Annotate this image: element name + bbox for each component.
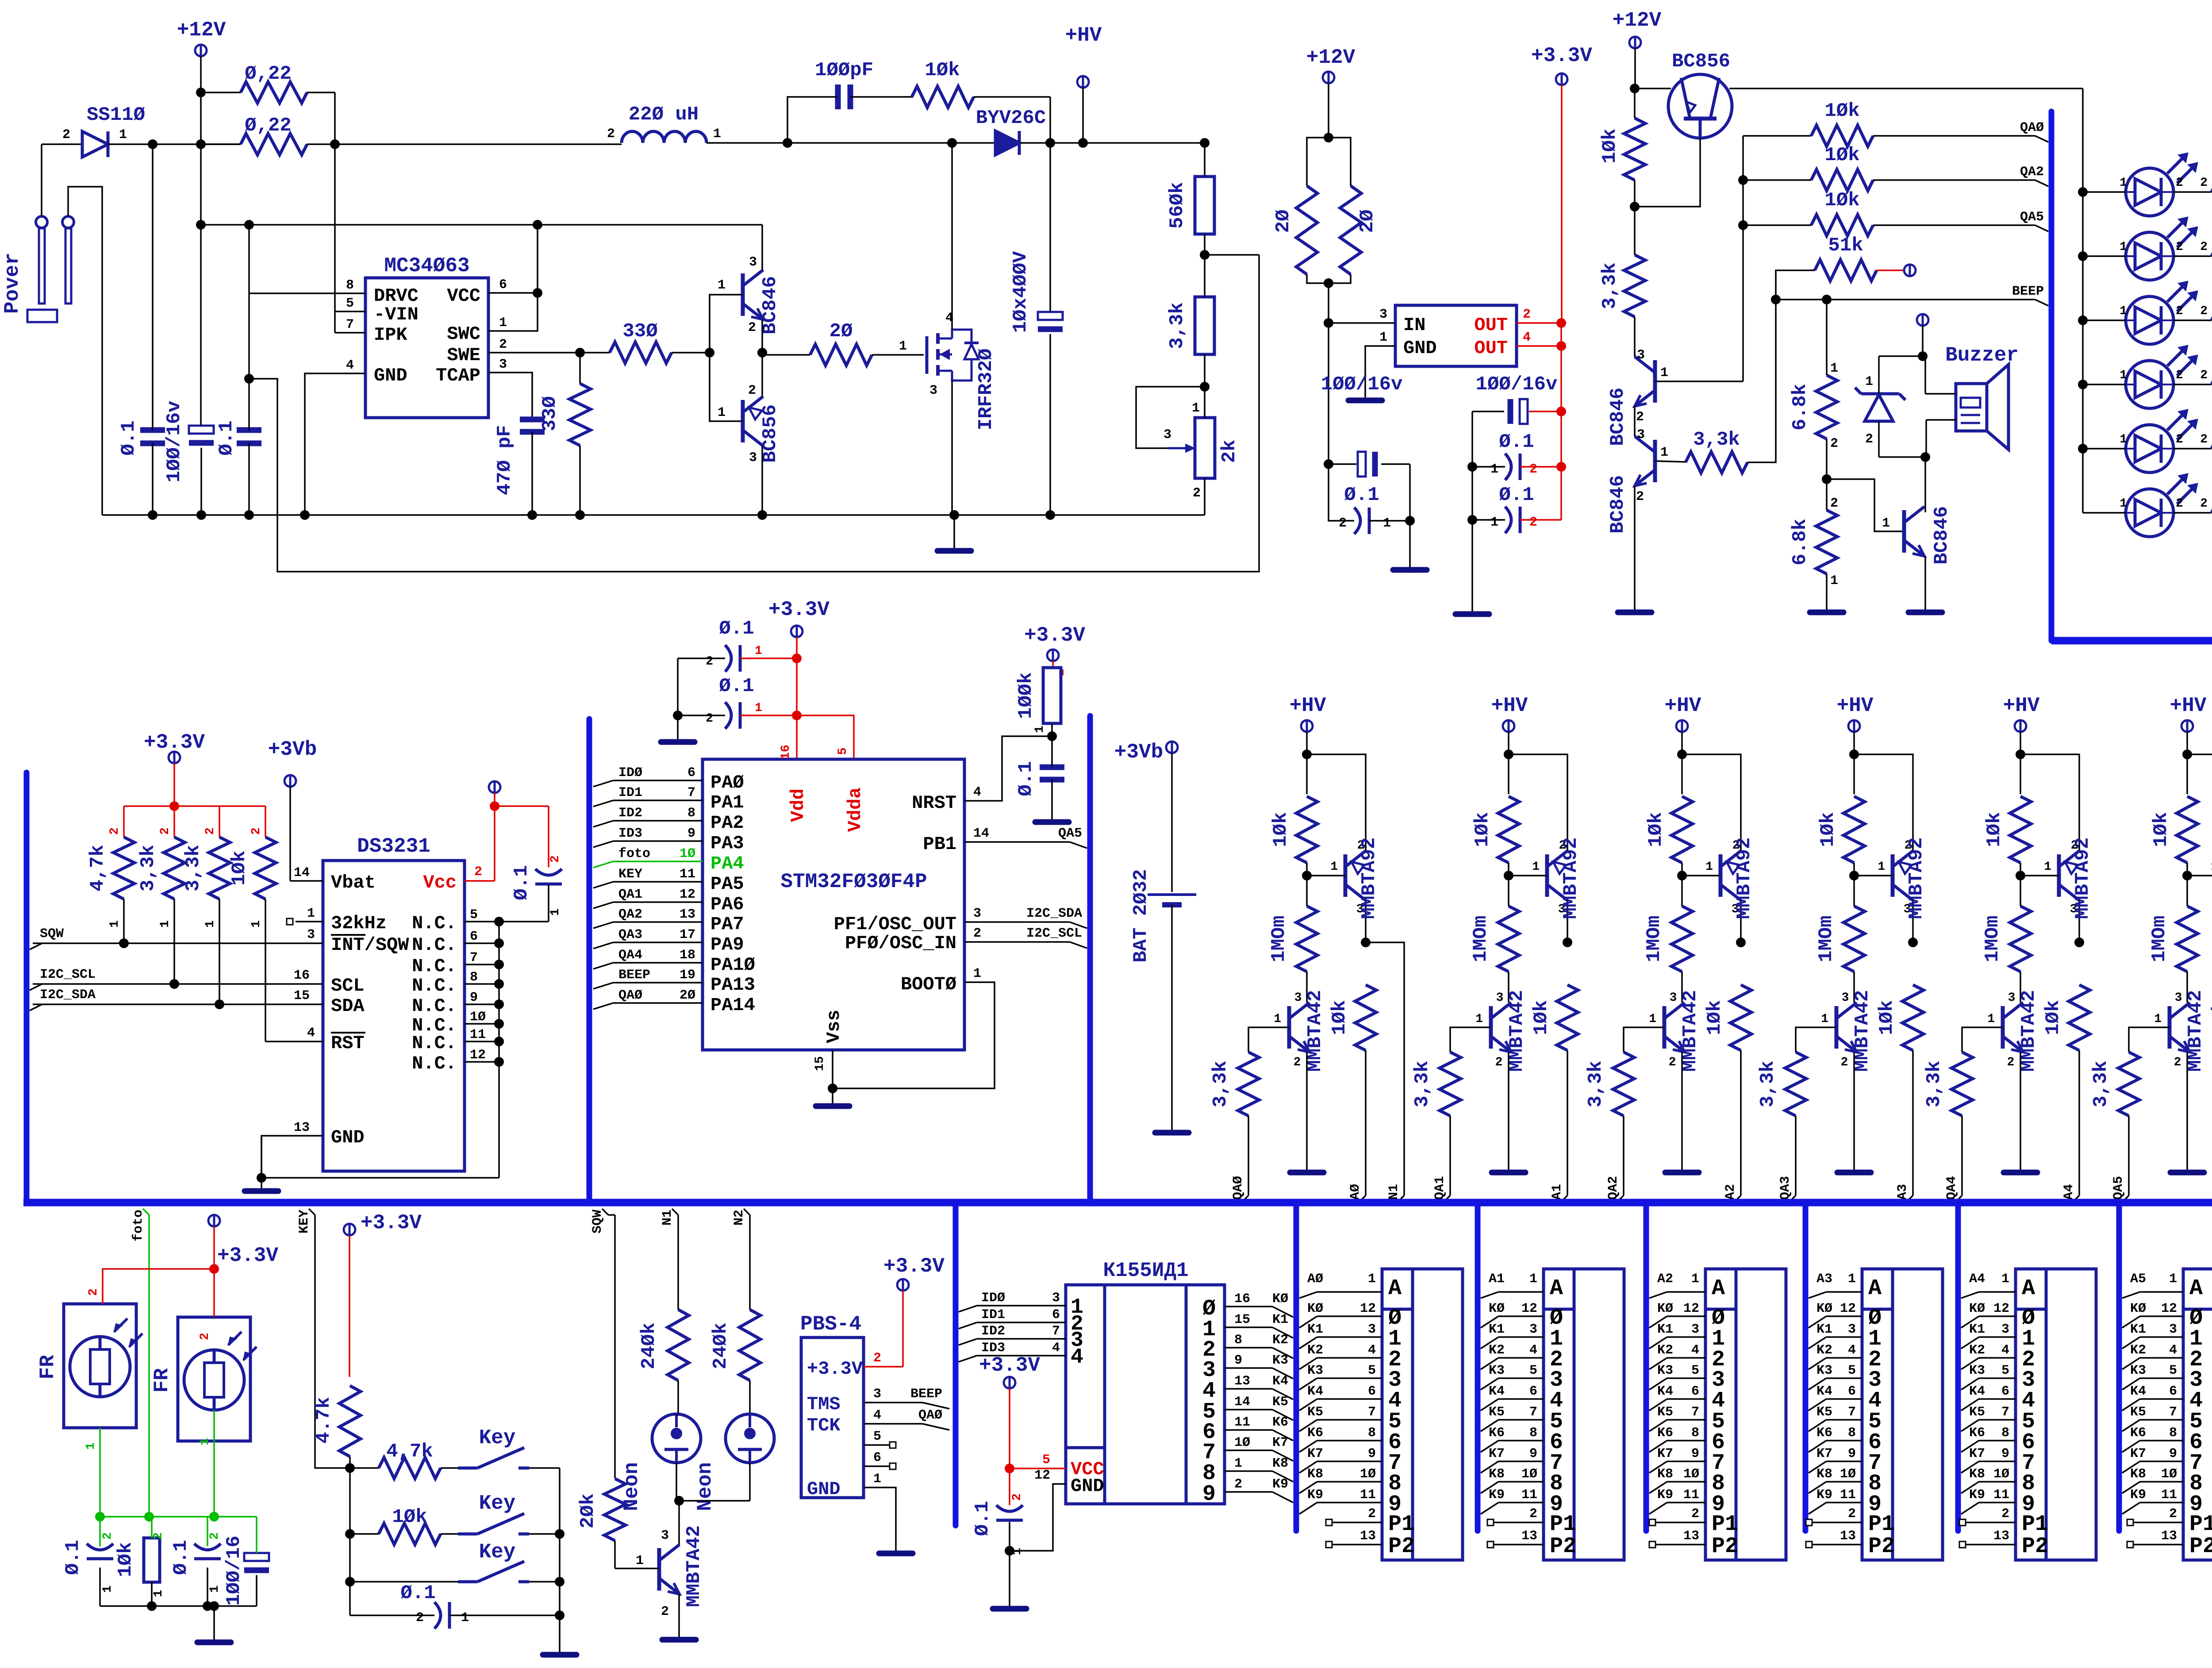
power pin (buzzer) [1917,314,1928,326]
pin 17 PA9 net QA3 [593,942,613,949]
wire vin rail [201,224,762,226]
pin 2 P1 (tube 3) [1806,1519,1812,1526]
bus left vertical [24,773,30,1199]
svg-text:Ø.1: Ø.1 [62,1540,84,1575]
ground (Q6) [1618,610,1651,615]
wire FR2 pin2 red [213,1269,215,1317]
resistor R20 6.8k (lower) [1789,474,1838,610]
svg-text:5: 5 [1848,1363,1856,1378]
pin 9 cathode K7 (tube 5) [2122,1461,2140,1473]
svg-text:1ØØpF: 1ØØpF [815,59,873,81]
pin 13 P2 (tube 1) [1487,1541,1494,1548]
resistor 10k anode (block 3) [1876,938,1924,1195]
svg-text:K6: K6 [2130,1426,2146,1441]
svg-text:9: 9 [687,826,695,841]
pin 4 NRST [964,736,1052,801]
svg-text:2: 2 [1294,1056,1301,1069]
pin 11 cathode K9 (tube 4) [1961,1503,1979,1514]
svg-text:1: 1 [108,920,122,928]
pin 7 cathode K5 (tube 5) [2122,1420,2140,1431]
svg-text:2: 2 [250,827,263,835]
svg-text:3: 3 [1164,427,1171,442]
pin 9 cathode K7 (tube 0) [1299,1461,1317,1473]
resistor 10k pull-up (block 4) [1983,796,2031,876]
svg-text:4.7k: 4.7k [313,1397,335,1444]
svg-text:5: 5 [2001,1363,2009,1378]
svg-text:1: 1 [2120,176,2127,190]
wire Q2 base tie [710,295,743,421]
pin 9 output K3 [1225,1367,1272,1369]
pin 1 anode A5 [2122,1292,2140,1298]
svg-text:AØ: AØ [1307,1272,1323,1287]
svg-text:+3.3V: +3.3V [217,1244,278,1267]
svg-text:1: 1 [1987,1012,1995,1026]
wire MMBTA42 emitter (block 4) [2020,1052,2021,1170]
svg-text:ID2: ID2 [981,1324,1005,1339]
svg-text:3,3k: 3,3k [2090,1061,2112,1107]
svg-text:Ø.1: Ø.1 [1344,484,1379,506]
svg-text:K9: K9 [1489,1487,1505,1503]
resistor 3,3k (block 3) [1757,1027,1836,1195]
svg-text:Ø.1: Ø.1 [719,618,754,640]
svg-text:I2C_SCL: I2C_SCL [40,967,96,982]
svg-text:1: 1 [636,1553,644,1568]
svg-text:2k: 2k [1218,440,1240,463]
svg-text:8: 8 [1529,1426,1537,1441]
wire net N1 [1366,942,1404,1195]
svg-text:TCK: TCK [807,1415,841,1436]
svg-text:K6: K6 [1969,1426,1985,1441]
ground (reg) [1348,398,1382,404]
switch Key2 [458,1492,560,1534]
resistor R18 51k [1776,234,1903,300]
svg-text:1: 1 [1830,361,1838,376]
svg-text:Neon: Neon [694,1462,717,1511]
resistor R6 20 (gate) [762,320,924,365]
svg-text:5: 5 [1368,1363,1376,1378]
svg-text:P2: P2 [2022,1534,2048,1559]
svg-text:K9: K9 [1816,1487,1832,1503]
svg-text:1Ø: 1Ø [2161,1467,2177,1482]
resistor R5 330 (base) [580,320,714,363]
svg-text:2: 2 [873,1351,881,1366]
nixie tube V5 socket [2016,1269,2096,1560]
svg-text:OUT: OUT [1474,315,1508,336]
ground (out caps) [1455,611,1489,617]
transistor MMBTA92 (block 2) [1677,830,1755,942]
svg-text:7: 7 [470,950,478,965]
svg-text:PA7: PA7 [710,914,744,935]
wire Q5 base rail [1655,380,1743,382]
svg-text:KØ: KØ [1657,1301,1673,1316]
svg-text:GND: GND [807,1479,841,1500]
power pin +3.3V (FR) [208,1215,278,1274]
svg-text:22Ø uH: 22Ø uH [629,104,699,126]
svg-text:2: 2 [108,827,122,835]
svg-text:6: 6 [873,1450,881,1465]
pin 8 output K2 [1225,1347,1272,1349]
svg-text:K6: K6 [1307,1426,1323,1441]
svg-text:5: 5 [1529,1363,1537,1378]
wire +12V node right [1635,88,1671,89]
pin 5 cathode K3 (tube 0) [1299,1378,1317,1390]
svg-text:6: 6 [2001,1384,2009,1399]
pin 2 P1 (tube 0) [1326,1519,1332,1526]
svg-text:1: 1 [755,701,762,715]
svg-text:1Øk: 1Øk [1471,812,1494,847]
pin 2 P1 (tube 4) [1959,1519,1966,1526]
svg-text:QA3: QA3 [1778,1176,1793,1200]
svg-text:P1: P1 [1868,1512,1895,1537]
potentiometer RP1 2k [1136,354,1240,515]
pin 1 anode A1 [1481,1292,1498,1298]
svg-text:1: 1 [2001,1272,2009,1287]
pin 13 P2 (tube 4) [1959,1541,1966,1548]
svg-text:2: 2 [1193,486,1201,501]
svg-text:11: 11 [2161,1487,2177,1503]
pin 2 P1 (tube 5) [2127,1519,2133,1526]
svg-text:1: 1 [713,127,721,142]
svg-text:1: 1 [1649,1012,1656,1026]
svg-text:13: 13 [1360,1529,1376,1544]
IC U1 MC34063 [365,254,488,418]
svg-text:BC846: BC846 [1607,475,1629,534]
power pin +HV (block 3) [1837,694,1874,754]
pin 3 TMS net BEEP [864,1402,922,1403]
pin 12 GND (K155) [1010,1484,1066,1551]
transistor Q6 BC846 (lower) [1607,427,1668,534]
ground (K155) [993,1606,1026,1612]
svg-text:1Øx4ØØV: 1Øx4ØØV [1010,251,1032,333]
ground (block 2) [1665,1170,1699,1176]
svg-text:5: 5 [2169,1363,2177,1378]
svg-text:K9: K9 [1657,1487,1673,1503]
svg-text:1: 1 [1660,445,1668,460]
pin 8 cathode K6 (tube 5) [2122,1441,2140,1452]
resistor R26 3,3k [137,837,185,984]
pin 12 cathode K0 (tube 5) [2122,1316,2140,1328]
nixie tube V1 socket [1382,1269,1463,1560]
pin 5 stub [864,1444,889,1446]
wire 6.8k tap to Q7 base [1827,479,1904,531]
svg-text:K8: K8 [1489,1467,1505,1482]
svg-text:1: 1 [1865,374,1873,389]
svg-text:2: 2 [499,337,507,352]
svg-text:4: 4 [873,1408,881,1423]
pin 9 cathode K7 (tube 1) [1481,1461,1498,1473]
svg-text:9: 9 [2001,1446,2009,1461]
svg-text:3: 3 [749,255,757,270]
pin 8 cathode K6 (tube 4) [1961,1441,1979,1452]
wire Q6 emitter to gnd [1634,486,1636,610]
svg-text:13: 13 [1234,1374,1250,1389]
transistor MMBTA92 (block 3) [1849,830,1928,942]
pin 8 cathode K6 (tube 0) [1299,1441,1317,1452]
svg-text:Ø.1: Ø.1 [118,420,140,455]
resistor 10k anode (block 0) [1329,938,1376,1195]
resistor 1MOm (block 5) [2148,876,2198,1002]
svg-text:1: 1 [1379,330,1387,345]
svg-text:6: 6 [1529,1384,1537,1399]
ground (block 3) [1837,1170,1871,1176]
svg-text:SWE: SWE [447,345,480,366]
svg-text:ID2: ID2 [618,806,642,821]
svg-text:GND: GND [1403,338,1437,359]
svg-text:N.C.: N.C. [412,1033,457,1054]
svg-text:K7: K7 [1272,1435,1288,1450]
resistor 3,3k (block 1) [1411,1027,1491,1195]
svg-text:A2: A2 [1723,1184,1738,1200]
pin 15 Vss [832,1050,833,1103]
svg-text:1Øk: 1Øk [1704,1000,1726,1035]
svg-text:2: 2 [973,926,981,941]
pin 13 GND [261,1136,323,1188]
svg-text:Key: Key [479,1541,516,1564]
svg-text:3: 3 [1842,991,1849,1005]
svg-text:1: 1 [2120,369,2127,382]
svg-text:11: 11 [1840,1487,1856,1503]
svg-text:KØ: KØ [2130,1301,2146,1316]
svg-text:+HV: +HV [1837,694,1874,717]
wire pin8 riser/feedback [249,225,1259,572]
svg-text:8: 8 [1691,1426,1699,1441]
svg-text:KEY: KEY [297,1210,312,1234]
svg-text:A: A [1712,1276,1725,1301]
capacitor C16 0.1 (FR1) [62,1517,115,1606]
wire red pullup rail [124,805,265,807]
resistor 10k anode (block 1) [1530,938,1578,1195]
svg-text:13: 13 [2161,1529,2177,1544]
wire +12V rail down [200,92,202,424]
resistor 1MOm (block 3) [1815,876,1865,1002]
resistor 10k anode (block 2) [1704,938,1751,1195]
svg-text:ID3: ID3 [981,1341,1005,1356]
pin 18 PA10 net QA4 [593,963,613,969]
svg-text:2: 2 [706,712,713,726]
svg-text:K3: K3 [1816,1363,1832,1378]
svg-text:1: 1 [198,1438,212,1445]
svg-text:K3: K3 [1657,1363,1673,1378]
svg-text:1: 1 [1532,860,1540,874]
svg-text:24Øk: 24Øk [638,1322,660,1369]
svg-text:A: A [1388,1276,1402,1301]
svg-text:1: 1 [1274,1012,1281,1026]
svg-text:2: 2 [1523,307,1531,322]
svg-text:K5: K5 [1489,1405,1505,1420]
svg-text:Ø.1: Ø.1 [170,1540,192,1575]
ground (PBS) [879,1551,913,1557]
bus nixie 3 vertical [1803,1206,1809,1531]
svg-text:Ø.1: Ø.1 [1015,761,1037,796]
resistor 1MOm (block 0) [1268,876,1317,1002]
svg-text:1Ø: 1Ø [470,1010,486,1025]
transistor Q3 IRFR320 MOSFET [927,311,997,430]
pin 1 anode A3 [1809,1292,1826,1298]
svg-text:A1: A1 [1489,1272,1505,1287]
svg-text:K2: K2 [1969,1343,1985,1358]
bus STM32 right vertical [1087,716,1093,1199]
pin 10 cathode K8 (tube 2) [1649,1482,1667,1493]
svg-text:7: 7 [1691,1405,1699,1420]
capacitor C2 100/16v [163,401,214,515]
svg-text:1: 1 [718,278,726,293]
svg-text:BEEP: BEEP [618,968,650,983]
resistor R26 680 [2212,481,2212,523]
svg-text:1MOm: 1MOm [1268,915,1290,962]
svg-text:KØ: KØ [1307,1301,1323,1316]
pin 2 P1 (tube 2) [1649,1519,1655,1526]
svg-text:K5: K5 [2130,1405,2146,1420]
svg-text:GND: GND [374,365,407,386]
svg-text:GND: GND [1071,1476,1104,1497]
svg-text:Vss: Vss [823,1010,845,1043]
resistor R32 4,7k [350,1441,468,1479]
svg-text:3: 3 [1368,1322,1376,1337]
svg-text:QA1: QA1 [618,887,642,902]
svg-text:16: 16 [294,968,310,983]
svg-text:1Øk: 1Øk [925,59,960,81]
svg-text:+3.3V: +3.3V [883,1255,945,1278]
bus STM32 left vertical [587,719,592,1199]
svg-text:1MOm: 1MOm [1982,915,2004,962]
svg-text:MMBTA92: MMBTA92 [1905,838,1928,919]
svg-text:K3: K3 [1307,1363,1323,1378]
svg-text:P2: P2 [1388,1534,1415,1559]
wire Q1 collector [761,225,763,270]
resistor R22 680 [2212,224,2212,266]
svg-text:PA5: PA5 [710,873,744,895]
photoresistor FR2 [150,1317,257,1441]
svg-text:FR: FR [150,1368,173,1393]
svg-text:A2: A2 [1657,1272,1673,1287]
svg-text:47Ø pF: 47Ø pF [494,425,516,495]
neon lamp NE2 [694,1414,774,1511]
resistor R11 20 [1324,133,1379,288]
power pin +3Vb [268,738,317,881]
svg-text:K3: K3 [1272,1353,1288,1368]
pin 12 PA6 net QA1 [593,902,613,908]
wire +HV node (block 4) [2020,754,2021,794]
pin 7 cathode K5 (tube 1) [1481,1420,1498,1431]
wire buzzer bottom node [1879,456,1925,458]
svg-text:1: 1 [1848,1272,1856,1287]
svg-text:PA1: PA1 [710,792,744,813]
pin 3 cathode K1 (tube 1) [1481,1337,1498,1349]
svg-text:I2C_SDA: I2C_SDA [40,988,96,1003]
svg-text:P2: P2 [1712,1534,1738,1559]
svg-text:+HV: +HV [1065,24,1102,47]
resistor 3,3k (block 4) [1923,1027,2003,1195]
pin 4 RST [265,1041,323,1042]
svg-text:K2: K2 [1272,1333,1288,1348]
svg-text:3: 3 [1379,307,1387,322]
svg-text:1ØØ/16: 1ØØ/16 [223,1536,245,1606]
svg-text:K4: K4 [1969,1384,1985,1399]
svg-text:2: 2 [1495,1056,1503,1069]
nixie tube V6 socket [2183,1269,2212,1560]
pin 14 output K5 [1225,1409,1272,1410]
svg-text:2: 2 [2200,369,2208,382]
svg-text:2: 2 [2200,176,2208,190]
svg-text:K6: K6 [1272,1415,1288,1430]
svg-text:K8: K8 [1969,1467,1985,1482]
svg-text:SDA: SDA [331,995,365,1017]
svg-text:K1: K1 [1969,1322,1985,1337]
svg-text:2: 2 [1010,1493,1024,1501]
svg-text:BC856: BC856 [1672,50,1730,73]
pin 3 INT/SQW + SQW net [33,942,323,944]
pin 7 IPK [335,332,365,334]
svg-text:KEY: KEY [618,867,642,882]
wire +3.3V red rail [1560,323,1562,520]
svg-text:P1: P1 [1712,1512,1738,1537]
svg-text:PFØ/OSC_IN: PFØ/OSC_IN [845,933,956,954]
svg-text:6: 6 [1691,1384,1699,1399]
pin 4 OUT [1517,345,1561,347]
pin 3 PF1 net I2C_SDA [964,921,1070,923]
svg-text:K8: K8 [1272,1456,1288,1471]
svg-text:8: 8 [687,806,695,821]
svg-text:1: 1 [119,127,127,142]
ground (neon driver) [662,1637,696,1643]
svg-text:Ø.1: Ø.1 [511,865,533,900]
svg-text:INT/SQW: INT/SQW [331,934,409,956]
power connector J1 'Pover' [1,216,74,322]
svg-text:15: 15 [1234,1312,1250,1327]
resistor R12 10k [1599,88,1645,211]
svg-text:1: 1 [2154,1012,2162,1026]
pin 3 input ID0 [959,1306,977,1312]
svg-text:+3.3V: +3.3V [361,1211,422,1234]
capacitor C11 0.1 [1467,484,1561,533]
pin 4 cathode K2 (tube 2) [1649,1358,1667,1369]
transistor MMBTA42 (block 3) [1821,990,1874,1072]
svg-text:IRFR32Ø: IRFR32Ø [975,349,997,430]
svg-text:9: 9 [2169,1446,2177,1461]
svg-text:12: 12 [1840,1301,1856,1316]
pin 3 IN [1329,322,1395,324]
svg-text:KØ: KØ [1489,1301,1505,1316]
svg-text:2: 2 [1234,1477,1242,1492]
resistor 1MOm (block 2) [1643,876,1693,1002]
pin 9 PA3 net ID3 [593,841,613,847]
svg-text:A3: A3 [1895,1184,1910,1200]
svg-text:P1: P1 [1550,1512,1576,1537]
svg-text:1: 1 [1330,860,1338,874]
svg-text:K7: K7 [1969,1446,1985,1461]
ground (block 4) [2004,1170,2037,1176]
LED D6 [2083,281,2212,344]
pin 1 GND (PBS) [864,1487,896,1551]
svg-text:14: 14 [973,826,989,841]
capacitor C20 0.1 (K155) [972,1468,1024,1606]
wire Vdda red [797,715,854,759]
svg-text:2: 2 [2176,369,2183,382]
svg-text:2: 2 [1848,1507,1856,1522]
svg-text:BEEP: BEEP [2012,284,2044,299]
wire +HV node (block 5) [2186,754,2188,794]
svg-text:1Ø: 1Ø [1521,1467,1537,1482]
svg-text:MMBTA92: MMBTA92 [1733,838,1755,919]
svg-text:1: 1 [461,1610,469,1626]
wire out caps gnd [1471,411,1473,611]
svg-text:K3: K3 [1969,1363,1985,1378]
inductor L1 220 uH [607,104,721,143]
svg-text:24Øk: 24Øk [710,1322,732,1369]
svg-text:A: A [1550,1276,1563,1301]
wire key left rail [349,1468,351,1615]
IC U4 right pin names [834,792,956,995]
